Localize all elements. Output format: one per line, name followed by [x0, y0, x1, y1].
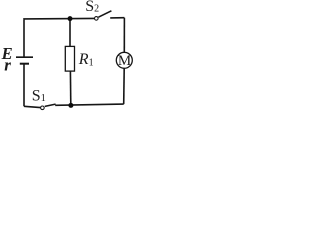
svg-text:S1: S1 [32, 87, 46, 104]
switch S1 hinge circle [41, 106, 45, 110]
wire top-left horizontal [24, 18, 95, 19]
node junction dot top (R1 branch to top wire) [68, 16, 73, 21]
wire right vertical lower (motor to bottom corner) [123, 68, 126, 104]
battery E r long plate [16, 56, 33, 58]
switch S2 blade [98, 11, 111, 17]
wire R1 branch upper (top junction to resistor) [69, 19, 71, 47]
motor M circle [116, 52, 132, 68]
switch S1 blade [45, 104, 56, 106]
wire R1 branch lower (resistor to bottom junction) [69, 71, 71, 105]
wire left vertical upper (to battery) [23, 19, 25, 57]
battery E r short plate [20, 63, 29, 65]
wire bottom-left (corner to switch S1) [24, 106, 41, 107]
wire right vertical upper (corner to motor) [123, 18, 125, 53]
wire bottom (S1 to bottom-right corner) [55, 104, 124, 105]
svg-text:M: M [118, 53, 131, 69]
wire left vertical lower (battery to bottom corner) [23, 64, 25, 107]
svg-text:S2: S2 [85, 0, 99, 15]
switch S2 hinge circle [95, 17, 99, 21]
svg-text:R1: R1 [78, 51, 94, 68]
svg-text:r: r [4, 55, 11, 74]
wire top-right (S2 to corner) [110, 17, 124, 19]
resistor R1 body [65, 46, 74, 71]
node junction dot bottom (R1 branch to bottom wire) [68, 103, 73, 108]
